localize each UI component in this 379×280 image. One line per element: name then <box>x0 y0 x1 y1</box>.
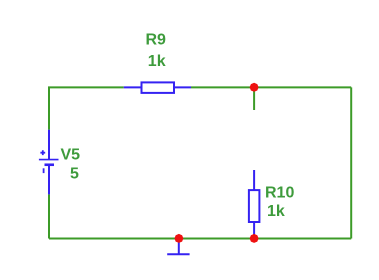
battery V5 <box>39 130 59 195</box>
junction dot at R10 bottom on bottom wire <box>250 234 259 243</box>
svg-text:R10: R10 <box>265 184 294 201</box>
resistor R10 value label 1k <box>267 203 285 220</box>
junction dot at ground connection on bottom wire <box>174 234 183 243</box>
wire top-left segment (R9 left lead to top-left corner, down to battery V5 plus terminal) <box>49 87 124 129</box>
svg-text:R9: R9 <box>146 32 167 49</box>
wire top-right segment (R9 right lead to top-right corner) <box>191 86 351 88</box>
wire stub hanging from node on top wire <box>253 87 255 110</box>
resistor R9 value label 1k <box>148 53 166 70</box>
svg-text:1k: 1k <box>267 203 285 220</box>
wire bottom segment <box>49 238 351 240</box>
resistor R10 <box>249 170 260 239</box>
svg-text:V5: V5 <box>61 146 81 163</box>
wire left-bottom segment (battery V5 minus terminal to bottom-left corner) <box>48 194 50 238</box>
resistor R9 <box>124 82 191 93</box>
svg-text:5: 5 <box>70 165 79 182</box>
resistor R10 reference label <box>265 184 294 201</box>
battery V5 value label 5 <box>70 165 79 182</box>
resistor R9 reference label <box>146 32 167 49</box>
ground <box>167 242 189 254</box>
junction dot on top wire (node feeding R10 branch) <box>250 83 259 92</box>
svg-text:1k: 1k <box>148 53 166 70</box>
wire right vertical segment <box>350 87 352 238</box>
battery V5 reference label <box>61 146 81 163</box>
